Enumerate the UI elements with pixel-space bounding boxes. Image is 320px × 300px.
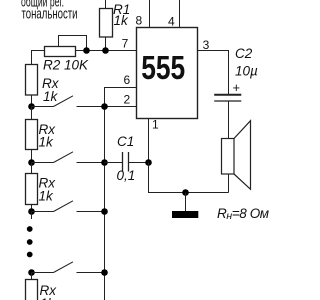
svg-text:1k: 1k <box>39 189 55 204</box>
junction row1 left <box>28 103 35 110</box>
switch S3 <box>32 201 105 212</box>
capacitor C1 <box>123 152 129 172</box>
wire Rx3 top <box>31 163 33 174</box>
resistor Rx3 <box>26 174 38 205</box>
wire C1 left <box>105 162 123 164</box>
svg-text:1k: 1k <box>43 89 59 104</box>
wire C2 bottom <box>228 101 230 139</box>
IC 555 U1 <box>137 28 198 119</box>
wire pin7 net <box>76 50 137 52</box>
wire pin 4 <box>179 0 181 28</box>
wire C1 right <box>129 162 149 164</box>
svg-text:555: 555 <box>141 49 185 86</box>
svg-text:1k: 1k <box>40 296 56 300</box>
label Rx2 <box>39 122 57 150</box>
resistor Rx4 <box>26 280 38 300</box>
junction bus row1 <box>101 103 108 110</box>
junction bus row4 <box>101 269 108 276</box>
wire pin 8 <box>149 0 151 28</box>
svg-text:тональности: тональности <box>22 5 78 22</box>
wire pin 3 <box>198 51 229 95</box>
svg-text:Rн=8 Ом: Rн=8 Ом <box>217 206 269 222</box>
junction row4 left <box>28 269 35 276</box>
junction R1-pin7 <box>102 47 109 54</box>
capacitor C2 <box>214 95 241 101</box>
svg-text:+: + <box>233 80 241 95</box>
svg-text:C2: C2 <box>235 46 253 61</box>
speaker BA1 <box>222 121 251 190</box>
wire stub below row3 <box>31 212 33 220</box>
switch S4 <box>32 262 105 273</box>
node bus (pins 2-6 common) <box>104 88 106 300</box>
svg-text:6: 6 <box>124 73 131 87</box>
R2 wiper <box>59 36 87 51</box>
junction wiper-pin7 <box>83 47 90 54</box>
wire Rx4 top <box>31 273 33 280</box>
resistor Rx1 <box>26 65 38 96</box>
label Rx4 <box>40 283 58 300</box>
potentiometer R2 <box>45 47 76 57</box>
wire speaker bottom <box>228 174 230 193</box>
ground stem <box>185 193 187 212</box>
svg-text:7: 7 <box>122 37 129 51</box>
svg-text:2: 2 <box>124 93 131 107</box>
ellipsis dots <box>27 226 33 257</box>
junction C1-pin1 <box>145 159 152 166</box>
junction row3 left <box>28 208 35 215</box>
svg-text:0,1: 0,1 <box>117 168 136 183</box>
wire R1 top <box>105 0 107 9</box>
label C1 0,1 <box>117 134 136 183</box>
wire pin 6 <box>105 88 137 107</box>
junction bus row3 <box>101 208 108 215</box>
wire R1 bottom <box>105 37 107 51</box>
wire output ground run <box>149 163 229 193</box>
label R1 1k <box>113 2 130 28</box>
wire Rx3 bottom <box>31 205 33 212</box>
resistor R1 <box>100 9 113 38</box>
junction bus row2 <box>101 159 108 166</box>
wire Rx2 bottom <box>31 150 33 163</box>
wire Rx1 bottom <box>31 95 33 107</box>
wire pin 2 to switch S1 <box>77 106 137 108</box>
switch S1 <box>32 96 74 107</box>
junction row2 left <box>28 159 35 166</box>
svg-text:1: 1 <box>152 118 159 132</box>
wire Rx2 top <box>31 107 33 120</box>
svg-text:1k: 1k <box>114 13 130 28</box>
ground bar <box>172 211 198 218</box>
wire pin 1 <box>148 119 150 163</box>
svg-text:10µ: 10µ <box>235 64 258 79</box>
wire R2 left to Rx1 <box>32 51 45 65</box>
label Rx1 <box>42 76 60 104</box>
label C2 10µ <box>235 46 258 79</box>
svg-text:4: 4 <box>168 15 175 29</box>
svg-text:1k: 1k <box>39 135 55 150</box>
svg-text:3: 3 <box>203 38 210 52</box>
svg-text:C1: C1 <box>117 134 134 149</box>
junction ground <box>182 189 189 196</box>
label Rx3 <box>39 176 57 204</box>
svg-text:8: 8 <box>136 14 143 28</box>
label: общий рег. тональности <box>21 0 78 22</box>
switch S2 <box>32 152 105 163</box>
resistor Rx2 <box>26 120 38 150</box>
svg-text:R2 10K: R2 10K <box>43 58 89 73</box>
